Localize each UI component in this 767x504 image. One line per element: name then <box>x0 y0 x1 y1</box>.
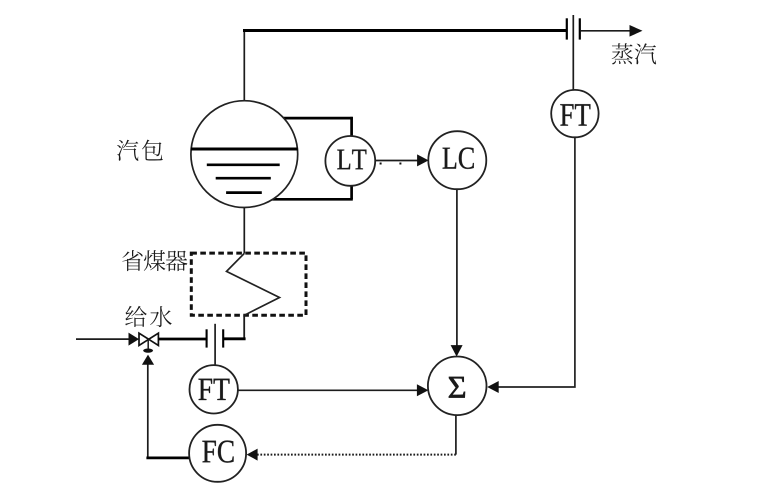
economizer dashed box <box>191 253 306 315</box>
transmitter LT <box>325 136 375 186</box>
signal: summer to FC (dotted) <box>247 415 456 461</box>
transmitter FT (feedwater) <box>190 365 238 413</box>
signal: LC down to summer <box>451 189 463 356</box>
signal: FT-steam down to summer <box>487 137 575 394</box>
signal: FT-feed to summer <box>238 384 428 396</box>
arrow: feedwater into valve <box>129 333 140 346</box>
water hatch line 1 <box>207 163 280 166</box>
wire: drum to economizer <box>243 207 245 254</box>
orifice plate FE-feedwater <box>207 324 224 366</box>
label 省煤器 <box>122 250 187 271</box>
pipe: valve to orifice (thick) <box>158 338 207 341</box>
economizer coil zigzag <box>227 254 280 316</box>
water hatch line 3 <box>226 191 262 194</box>
label 给水 <box>125 306 171 327</box>
water level line <box>191 148 298 151</box>
wire: feedwater inlet <box>76 338 131 340</box>
signal: FC to valve <box>142 355 191 459</box>
wire: steam outlet arrow <box>581 25 643 37</box>
economizer inlet pipe <box>223 315 246 339</box>
label 蒸汽 <box>612 43 656 64</box>
controller FC <box>189 425 246 482</box>
transmitter FT (steam) <box>551 90 598 137</box>
steam drum 汽包 <box>191 101 298 208</box>
LT bracket wires <box>271 117 353 199</box>
label 汽包 <box>117 140 163 161</box>
control valve V1 <box>139 333 158 353</box>
water hatch line 2 <box>216 177 271 180</box>
wire: drum steam riser <box>243 31 245 102</box>
orifice plate FE-steam <box>567 15 580 92</box>
signal: LT to LC <box>375 154 487 166</box>
controller LC <box>428 131 486 189</box>
wire: main steam line (thick) <box>243 29 567 32</box>
summer Σ <box>428 357 487 416</box>
